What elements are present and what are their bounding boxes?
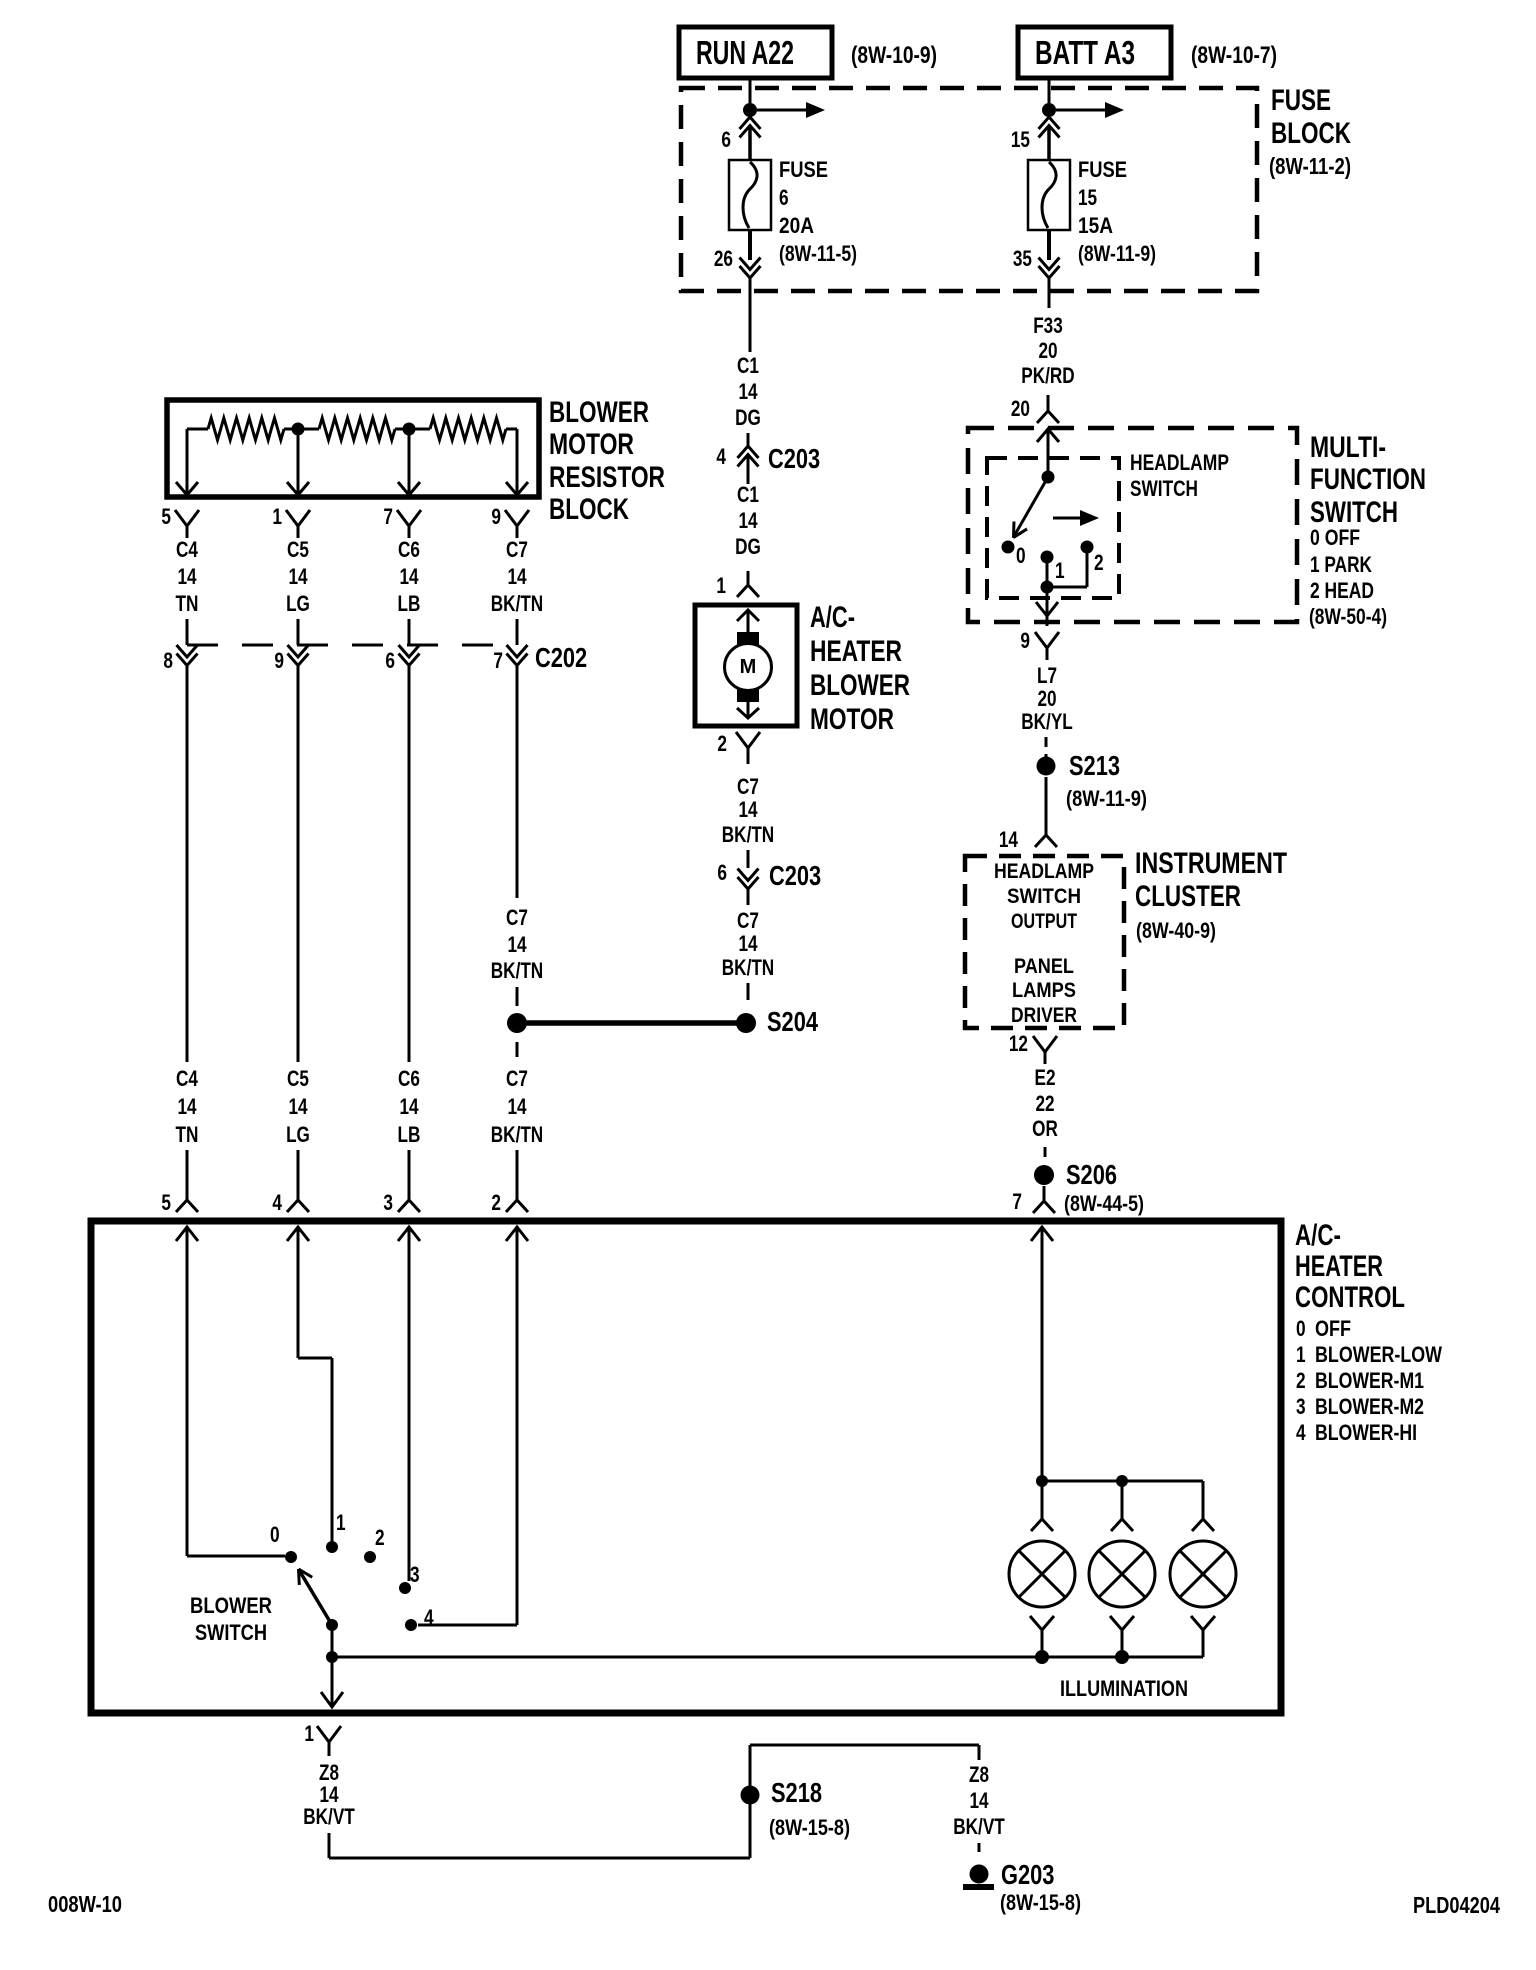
svg-text:FUNCTION: FUNCTION: [1310, 463, 1426, 496]
svg-text:9: 9: [1020, 628, 1030, 653]
svg-text:BK/TN: BK/TN: [491, 591, 543, 616]
svg-text:4: 4: [272, 1190, 282, 1215]
svg-text:20: 20: [1037, 686, 1056, 711]
svg-text:14: 14: [507, 564, 527, 589]
svg-text:HEATER: HEATER: [810, 635, 902, 668]
svg-text:S218: S218: [771, 1777, 822, 1808]
svg-text:15: 15: [1011, 127, 1030, 152]
svg-text:35: 35: [1013, 246, 1032, 271]
svg-text:2: 2: [717, 731, 727, 756]
svg-text:2: 2: [491, 1190, 501, 1215]
svg-text:14: 14: [288, 1094, 308, 1119]
svg-text:7: 7: [493, 648, 503, 673]
svg-text:8: 8: [163, 648, 173, 673]
svg-text:LAMPS: LAMPS: [1012, 979, 1076, 1002]
svg-text:6: 6: [721, 127, 731, 152]
svg-text:14: 14: [177, 1094, 197, 1119]
svg-text:14: 14: [177, 564, 197, 589]
svg-text:BK/VT: BK/VT: [303, 1804, 355, 1829]
svg-text:FUSE: FUSE: [1078, 157, 1127, 182]
svg-text:14: 14: [999, 827, 1019, 852]
svg-text:BK/TN: BK/TN: [722, 822, 774, 847]
svg-text:TN: TN: [176, 591, 199, 616]
svg-text:0: 0: [1296, 1316, 1306, 1341]
svg-text:14: 14: [507, 932, 527, 957]
svg-text:BK/TN: BK/TN: [491, 1122, 543, 1147]
svg-text:6: 6: [385, 648, 395, 673]
svg-text:PLD04204: PLD04204: [1413, 1892, 1500, 1918]
svg-text:6: 6: [779, 185, 789, 210]
svg-text:HEADLAMP: HEADLAMP: [1130, 450, 1229, 475]
svg-text:(8W-11-9): (8W-11-9): [1066, 786, 1147, 811]
svg-text:1: 1: [336, 1510, 346, 1535]
svg-text:BLOCK: BLOCK: [549, 493, 629, 526]
svg-text:DG: DG: [735, 405, 761, 430]
svg-text:6: 6: [717, 860, 727, 885]
svg-text:14: 14: [738, 508, 758, 533]
svg-text:RESISTOR: RESISTOR: [549, 461, 665, 494]
svg-text:FUSE: FUSE: [779, 157, 828, 182]
svg-text:14: 14: [738, 797, 758, 822]
svg-text:(8W-44-5): (8W-44-5): [1064, 1191, 1144, 1216]
svg-text:S204: S204: [767, 1006, 818, 1037]
svg-text:OUTPUT: OUTPUT: [1011, 910, 1077, 933]
svg-text:0 OFF: 0 OFF: [1310, 525, 1360, 550]
svg-text:20: 20: [1011, 396, 1030, 421]
svg-text:E2: E2: [1035, 1065, 1056, 1090]
svg-text:3: 3: [1296, 1394, 1306, 1419]
svg-text:CONTROL: CONTROL: [1295, 1281, 1405, 1314]
svg-text:C7: C7: [737, 774, 759, 799]
svg-text:LB: LB: [398, 1122, 421, 1147]
svg-text:C5: C5: [287, 537, 309, 562]
svg-text:(8W-15-8): (8W-15-8): [769, 1815, 850, 1840]
svg-text:4: 4: [716, 444, 726, 469]
svg-text:BK/VT: BK/VT: [953, 1814, 1005, 1839]
svg-text:BLOWER-LOW: BLOWER-LOW: [1315, 1342, 1442, 1367]
svg-text:14: 14: [288, 564, 308, 589]
svg-text:BLOWER: BLOWER: [810, 669, 910, 702]
svg-text:BLOWER: BLOWER: [190, 1593, 272, 1618]
svg-text:CLUSTER: CLUSTER: [1135, 880, 1241, 913]
svg-text:LG: LG: [286, 1122, 310, 1147]
svg-text:9: 9: [491, 504, 501, 529]
svg-text:15: 15: [1078, 185, 1097, 210]
svg-text:4: 4: [1296, 1420, 1306, 1445]
svg-text:(8W-10-7): (8W-10-7): [1191, 42, 1277, 69]
svg-text:L7: L7: [1037, 663, 1057, 688]
svg-text:OFF: OFF: [1315, 1316, 1351, 1341]
svg-text:RUN A22: RUN A22: [696, 34, 794, 71]
svg-text:INSTRUMENT: INSTRUMENT: [1135, 847, 1287, 880]
svg-text:BK/TN: BK/TN: [722, 955, 774, 980]
svg-text:HEATER: HEATER: [1295, 1250, 1383, 1283]
svg-text:PANEL: PANEL: [1014, 955, 1074, 978]
svg-text:(8W-11-9): (8W-11-9): [1078, 241, 1156, 266]
svg-text:BLOWER-M1: BLOWER-M1: [1315, 1368, 1424, 1393]
svg-text:Z8: Z8: [969, 1762, 989, 1787]
svg-text:1: 1: [716, 573, 726, 598]
svg-text:C203: C203: [769, 860, 821, 891]
svg-text:C7: C7: [506, 1066, 528, 1091]
svg-text:(8W-11-2): (8W-11-2): [1269, 153, 1351, 179]
svg-text:9: 9: [274, 648, 284, 673]
svg-text:MULTI-: MULTI-: [1310, 431, 1386, 464]
svg-text:C1: C1: [737, 482, 759, 507]
svg-text:20A: 20A: [779, 213, 814, 238]
svg-text:14: 14: [738, 931, 758, 956]
svg-text:1: 1: [1296, 1342, 1306, 1367]
svg-text:DG: DG: [735, 534, 761, 559]
svg-text:14: 14: [507, 1094, 527, 1119]
svg-text:F33: F33: [1033, 313, 1063, 338]
svg-text:0: 0: [1016, 543, 1026, 568]
svg-text:4: 4: [424, 1605, 434, 1630]
svg-text:2: 2: [1296, 1368, 1306, 1393]
svg-text:20: 20: [1038, 338, 1057, 363]
svg-text:S206: S206: [1066, 1159, 1117, 1190]
svg-text:OR: OR: [1032, 1116, 1058, 1141]
svg-text:BLOWER-HI: BLOWER-HI: [1315, 1420, 1417, 1445]
svg-text:C1: C1: [737, 353, 759, 378]
svg-text:BLOWER: BLOWER: [549, 396, 649, 429]
svg-text:1: 1: [1055, 558, 1065, 583]
svg-text:(8W-10-9): (8W-10-9): [851, 42, 937, 69]
svg-text:C7: C7: [506, 537, 528, 562]
svg-text:C4: C4: [176, 537, 198, 562]
svg-text:C4: C4: [176, 1066, 198, 1091]
svg-text:BLOWER-M2: BLOWER-M2: [1315, 1394, 1424, 1419]
svg-text:22: 22: [1035, 1091, 1054, 1116]
svg-text:A/C-: A/C-: [810, 601, 855, 634]
svg-text:(8W-11-5): (8W-11-5): [779, 241, 857, 266]
svg-text:DRIVER: DRIVER: [1011, 1004, 1077, 1027]
svg-text:14: 14: [399, 564, 419, 589]
svg-text:C6: C6: [398, 1066, 420, 1091]
svg-text:2: 2: [375, 1525, 385, 1550]
svg-text:HEADLAMP: HEADLAMP: [994, 860, 1094, 883]
svg-text:BK/YL: BK/YL: [1021, 709, 1073, 734]
svg-text:MOTOR: MOTOR: [810, 703, 894, 736]
svg-text:PK/RD: PK/RD: [1021, 363, 1074, 388]
svg-text:(8W-50-4): (8W-50-4): [1309, 604, 1387, 629]
svg-text:5: 5: [161, 504, 171, 529]
svg-text:1: 1: [304, 1721, 314, 1746]
svg-text:5: 5: [161, 1190, 171, 1215]
svg-text:12: 12: [1009, 1031, 1028, 1056]
svg-text:SWITCH: SWITCH: [195, 1620, 267, 1645]
svg-text:SWITCH: SWITCH: [1007, 885, 1081, 908]
svg-text:14: 14: [399, 1094, 419, 1119]
svg-text:C7: C7: [737, 908, 759, 933]
svg-text:7: 7: [1012, 1189, 1022, 1214]
svg-text:(8W-15-8): (8W-15-8): [1000, 1890, 1081, 1915]
svg-text:7: 7: [383, 504, 393, 529]
svg-text:14: 14: [969, 1788, 989, 1813]
svg-text:C202: C202: [535, 642, 587, 673]
svg-text:0: 0: [270, 1522, 280, 1547]
svg-text:C6: C6: [398, 537, 420, 562]
svg-text:ILLUMINATION: ILLUMINATION: [1060, 1676, 1188, 1701]
svg-text:TN: TN: [176, 1122, 199, 1147]
svg-text:3: 3: [410, 1562, 420, 1587]
svg-text:14: 14: [738, 379, 758, 404]
svg-text:SWITCH: SWITCH: [1130, 476, 1198, 501]
svg-text:1 PARK: 1 PARK: [1310, 552, 1372, 577]
svg-text:S213: S213: [1069, 750, 1120, 781]
svg-text:MOTOR: MOTOR: [549, 428, 634, 461]
svg-text:008W-10: 008W-10: [48, 1891, 122, 1917]
svg-text:FUSE: FUSE: [1271, 84, 1331, 117]
svg-text:LB: LB: [398, 591, 421, 616]
svg-text:2: 2: [1094, 550, 1104, 575]
svg-text:15A: 15A: [1078, 213, 1113, 238]
svg-text:(8W-40-9): (8W-40-9): [1136, 918, 1216, 943]
svg-text:C7: C7: [506, 905, 528, 930]
svg-text:BATT A3: BATT A3: [1035, 34, 1135, 71]
svg-text:M: M: [740, 656, 757, 678]
svg-text:3: 3: [383, 1190, 393, 1215]
svg-text:1: 1: [272, 504, 282, 529]
svg-text:C5: C5: [287, 1066, 309, 1091]
svg-text:G203: G203: [1001, 1859, 1054, 1890]
svg-text:BK/TN: BK/TN: [491, 958, 543, 983]
svg-text:26: 26: [714, 246, 733, 271]
svg-text:A/C-: A/C-: [1295, 1219, 1341, 1252]
svg-text:2 HEAD: 2 HEAD: [1310, 578, 1374, 603]
svg-text:C203: C203: [768, 443, 820, 474]
svg-text:BLOCK: BLOCK: [1271, 117, 1351, 150]
svg-text:LG: LG: [286, 591, 310, 616]
